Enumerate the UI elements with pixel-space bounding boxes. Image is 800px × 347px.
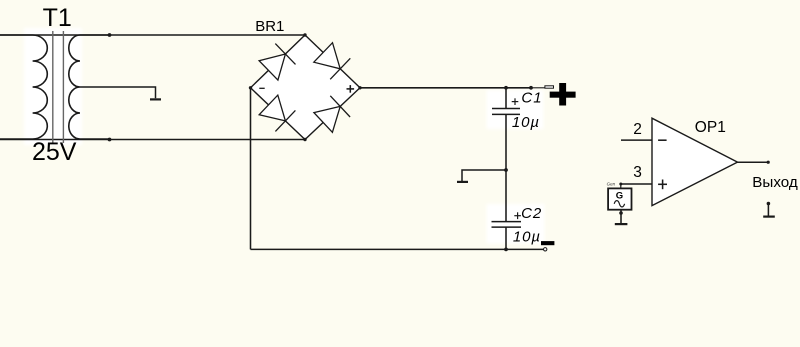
wire bottom negative rail: [251, 248, 544, 250]
diode D1 (left-top edge): [259, 44, 295, 81]
svg-text:Выход: Выход: [752, 174, 798, 191]
bridge plus mark: [347, 85, 355, 93]
diode D3 (left-bottom edge): [259, 95, 295, 131]
node dot bridge left: [249, 86, 252, 89]
node dot bridge right: [358, 86, 361, 89]
ground output: [763, 216, 775, 218]
white backdrop capacitor C1: [487, 90, 544, 129]
terminal minus (open circle): [544, 248, 547, 251]
wire bottom secondary to bridge: [0, 139, 305, 141]
op-amp minus input mark: [658, 139, 667, 141]
svg-text:G: G: [616, 190, 623, 201]
capacitor C1: [492, 88, 520, 170]
terminal plus (open rectangle): [545, 86, 554, 88]
svg-text:BR1: BR1: [255, 18, 284, 35]
svg-text:10µ: 10µ: [512, 114, 540, 131]
wire pin 3: [621, 183, 652, 185]
node dot output ground: [767, 202, 771, 206]
C1 polarity plus: [512, 98, 519, 105]
transformer core: [53, 31, 64, 143]
svg-text:25V: 25V: [32, 138, 77, 166]
node dot bottom rail: [504, 248, 508, 252]
wire negative vertical from bridge left: [250, 88, 252, 250]
wire generator ground: [620, 210, 622, 224]
secondary winding: [69, 35, 110, 139]
node dot bridge top: [303, 33, 306, 36]
svg-text:10µ: 10µ: [513, 228, 541, 245]
generator G stub: [620, 184, 622, 188]
wire positive rail: [360, 87, 531, 89]
transformer T1: [0, 35, 110, 139]
svg-text:C2: C2: [521, 205, 542, 222]
node dot pin 3: [619, 183, 622, 186]
node dot bottom secondary: [108, 138, 112, 142]
bridge BR1 body: [251, 35, 361, 140]
op-amp OP1 body: [652, 118, 738, 205]
op-amp plus input mark: [658, 180, 667, 190]
wire stub to plus terminal: [531, 87, 545, 89]
wire pin 2: [621, 139, 652, 141]
node dot generator pin: [619, 211, 623, 215]
wire center tap: [80, 87, 156, 98]
wire output: [737, 161, 768, 163]
ground generator: [615, 223, 628, 225]
bridge minus mark: [259, 87, 264, 89]
generator sine wave: [614, 201, 624, 207]
big plus symbol: [550, 83, 576, 106]
svg-text:C1: C1: [521, 90, 542, 107]
svg-text:T1: T1: [43, 4, 72, 32]
svg-text:3: 3: [633, 164, 642, 181]
node dot positive rail C1: [504, 86, 508, 90]
diode D4 (bottom-right edge): [314, 96, 350, 133]
white backdrop transformer: [24, 28, 82, 145]
svg-text:Gen: Gen: [607, 182, 616, 187]
C2 polarity plus: [514, 212, 521, 219]
generator G box: [608, 188, 631, 209]
big minus symbol: [541, 241, 554, 245]
node dot positive rail terminal: [529, 86, 533, 90]
node dot output: [767, 161, 770, 164]
wire top secondary to bridge: [0, 34, 305, 36]
primary winding: [0, 35, 47, 139]
wire mid ground: [462, 170, 506, 181]
node dot top secondary: [108, 33, 112, 37]
white backdrop capacitor C2: [487, 204, 545, 244]
svg-text:OP1: OP1: [695, 119, 726, 136]
capacitor C2: [492, 170, 522, 249]
diode D2 (top-right edge): [314, 43, 351, 80]
wire output ground: [767, 204, 769, 217]
ground mid: [457, 181, 468, 183]
ground center tap: [150, 98, 161, 100]
svg-text:2: 2: [633, 121, 642, 138]
node dot bridge bottom: [303, 138, 306, 141]
node dot mid rail: [504, 168, 508, 172]
